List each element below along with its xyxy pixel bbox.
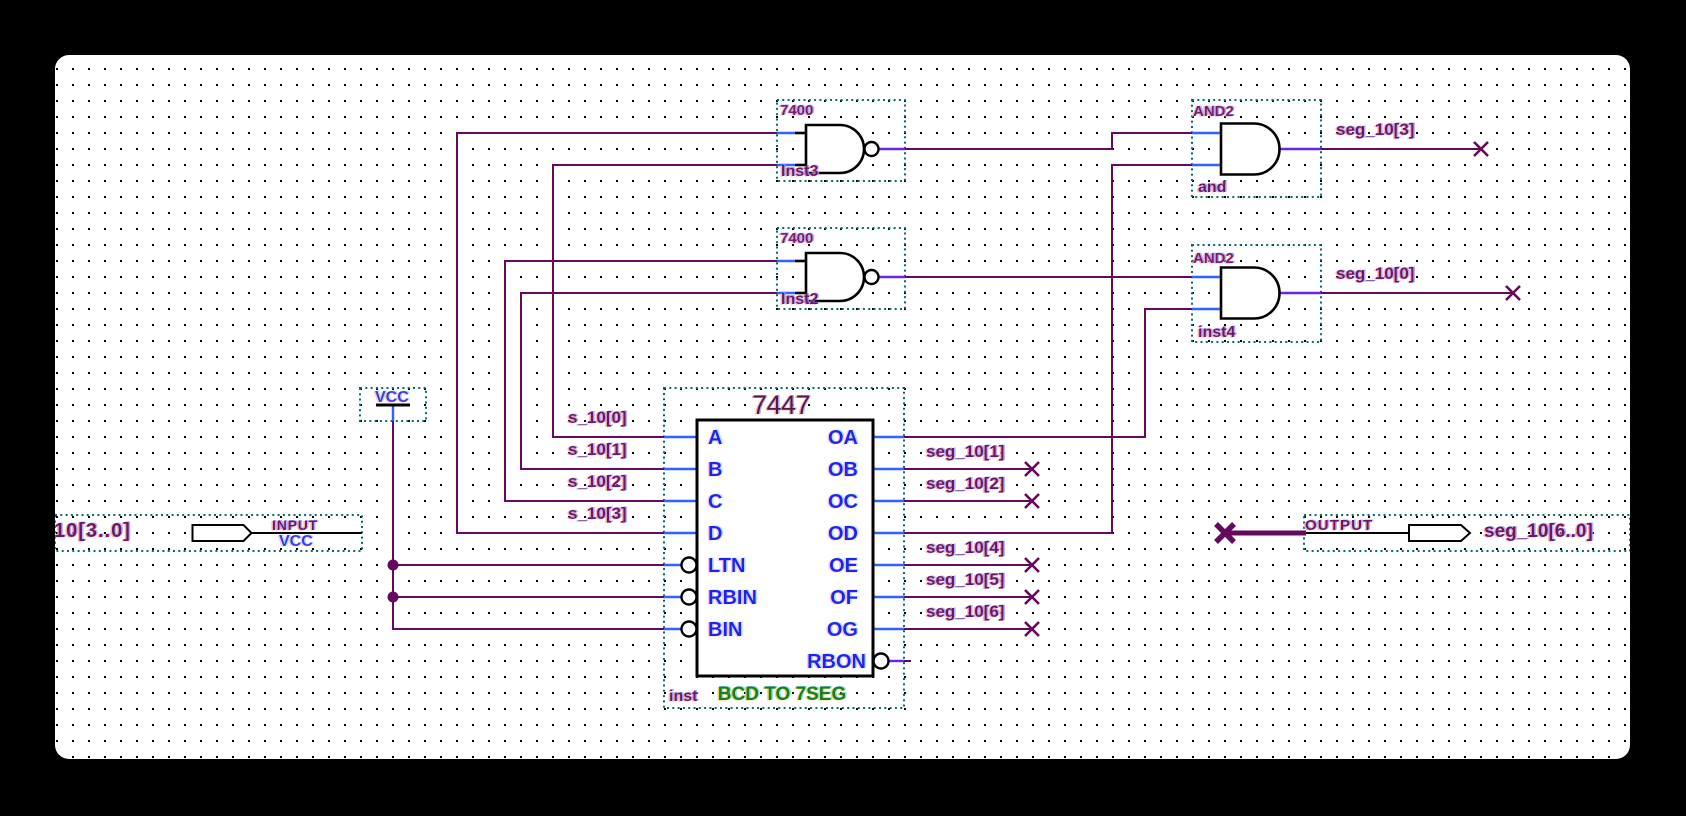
violet output stub inst2 bbox=[879, 276, 905, 278]
blue stub 7447 pin C bbox=[664, 500, 697, 502]
svg-text:seg_10[2]: seg_10[2] bbox=[926, 474, 1004, 493]
selection box 7447 inst bbox=[664, 388, 904, 708]
wire VCC to LTN bbox=[393, 564, 666, 566]
blue stub 7447 pin LTN bbox=[664, 564, 681, 566]
wire inst2 output to AND gate inst4 top input bbox=[905, 276, 1192, 278]
junction dot VCC/LTN bbox=[388, 560, 399, 571]
bubble pin RBON bbox=[874, 654, 889, 669]
selection box VCC symbol bbox=[360, 388, 426, 421]
selection box OUTPUT pin bbox=[1304, 515, 1630, 551]
blue stub inst2 input 2 bbox=[777, 292, 795, 294]
blue stub 7447 pin OE bbox=[873, 564, 904, 566]
blue stub inst3 input 2 bbox=[777, 164, 795, 166]
svg-text:VCC: VCC bbox=[375, 389, 409, 406]
selection box NAND inst2 bbox=[777, 228, 905, 309]
svg-text:OE: OE bbox=[829, 555, 858, 577]
svg-text:seg_10[5]: seg_10[5] bbox=[926, 570, 1004, 589]
AND gate inst4 (AND2) bbox=[1221, 268, 1280, 319]
NAND gate inst3 (7400) bbox=[795, 125, 879, 173]
svg-text:OG: OG bbox=[827, 619, 858, 641]
wire OE dangling bbox=[904, 564, 1032, 566]
blue stub 7447 pin OC bbox=[873, 500, 904, 502]
svg-text:seg_10[4]: seg_10[4] bbox=[926, 538, 1004, 557]
wire OD to AND gate and bottom input bbox=[904, 165, 1192, 533]
blue stub and input 2 bbox=[1192, 164, 1221, 166]
svg-text:and: and bbox=[1198, 179, 1226, 196]
violet output stub RBON bbox=[889, 660, 904, 662]
blue stub inst4 input 1 bbox=[1192, 276, 1221, 278]
selection box AND2 and bbox=[1192, 100, 1321, 197]
svg-text:Inst3: Inst3 bbox=[781, 163, 818, 180]
svg-text:A: A bbox=[708, 427, 722, 449]
svg-text:s_10[1]: s_10[1] bbox=[568, 440, 627, 459]
wire RBON stub bbox=[904, 660, 911, 662]
bubble pin RBIN bbox=[682, 590, 697, 605]
svg-text:OF: OF bbox=[830, 587, 858, 609]
svg-text:VCC: VCC bbox=[279, 533, 313, 550]
blue stub 7447 pin OD bbox=[873, 532, 904, 534]
blue stub 7447 pin RBIN bbox=[664, 596, 681, 598]
svg-text:OD: OD bbox=[828, 523, 858, 545]
X mark seg_10[3] end bbox=[1474, 142, 1488, 156]
svg-text:RBIN: RBIN bbox=[708, 587, 757, 609]
svg-text:seg_10[6..0]: seg_10[6..0] bbox=[1484, 521, 1593, 542]
blue stub VCC symbol bbox=[392, 406, 394, 421]
svg-text:seg_10[0]: seg_10[0] bbox=[1336, 264, 1414, 283]
svg-text:LTN: LTN bbox=[708, 555, 745, 577]
X mark OG end bbox=[1025, 622, 1039, 636]
blue stub and input 1 bbox=[1192, 132, 1221, 134]
wire OC dangling bbox=[904, 500, 1032, 502]
svg-text:7447: 7447 bbox=[752, 390, 810, 420]
selection box AND2 inst4 bbox=[1192, 245, 1321, 342]
wire net s_10[3] to NAND inst3 top input bbox=[457, 133, 777, 533]
wire net s_10[2] to NAND inst2 top input bbox=[505, 261, 777, 501]
wire VCC net vertical bbox=[393, 420, 666, 629]
7447 symbol body bbox=[697, 420, 873, 676]
INPUT pin connector line bbox=[251, 532, 362, 534]
wire OF dangling bbox=[904, 596, 1032, 598]
svg-text:10[3..0]: 10[3..0] bbox=[54, 520, 131, 542]
INPUT pin pennant bbox=[193, 525, 252, 541]
svg-text:BCD TO 7SEG: BCD TO 7SEG bbox=[718, 684, 846, 705]
bus wire to OUTPUT pin bbox=[1222, 531, 1306, 536]
blue stub 7447 pin OG bbox=[873, 628, 904, 630]
blue stub inst4 input 2 bbox=[1192, 308, 1221, 310]
svg-text:inst4: inst4 bbox=[1198, 324, 1235, 341]
bold X mark on output bus bbox=[1216, 524, 1234, 542]
svg-text:s_10[3]: s_10[3] bbox=[568, 504, 627, 523]
svg-text:AND2: AND2 bbox=[1193, 103, 1234, 120]
svg-text:INPUT: INPUT bbox=[272, 517, 318, 533]
violet output stub and bbox=[1279, 148, 1321, 150]
X mark OF end bbox=[1025, 590, 1039, 604]
wire OB dangling bbox=[904, 468, 1032, 470]
svg-text:OUTPUT: OUTPUT bbox=[1305, 517, 1373, 534]
X mark OB end bbox=[1025, 462, 1039, 476]
svg-text:D: D bbox=[708, 523, 722, 545]
wire net s_10[0] to NAND inst3 bottom input bbox=[553, 165, 777, 437]
svg-text:s_10[2]: s_10[2] bbox=[568, 472, 627, 491]
wire OA to AND gate inst4 bottom input bbox=[904, 309, 1192, 437]
AND gate and (AND2) bbox=[1221, 124, 1280, 175]
blue stub 7447 pin OF bbox=[873, 596, 904, 598]
wire inst4 output seg_10[0] bbox=[1321, 292, 1513, 294]
svg-text:RBON: RBON bbox=[807, 651, 866, 673]
svg-text:7400: 7400 bbox=[780, 102, 813, 119]
svg-text:inst: inst bbox=[669, 688, 698, 705]
junction dot VCC/RBIN bbox=[388, 592, 399, 603]
OUTPUT pin pennant bbox=[1409, 525, 1470, 541]
bubble pin LTN bbox=[682, 558, 697, 573]
violet output stub inst3 bbox=[879, 148, 905, 150]
svg-text:B: B bbox=[708, 459, 722, 481]
blue stub 7447 pin A bbox=[664, 436, 697, 438]
blue stub 7447 pin OB bbox=[873, 468, 904, 470]
wire inst3 output to AND gate and top input bbox=[905, 133, 1192, 149]
blue stub 7447 pin BIN bbox=[664, 628, 681, 630]
wire VCC to RBIN bbox=[393, 596, 666, 598]
svg-text:OA: OA bbox=[828, 427, 858, 449]
blue stub 7447 pin B bbox=[664, 468, 697, 470]
bubble pin BIN bbox=[682, 622, 697, 637]
svg-text:BIN: BIN bbox=[708, 619, 742, 641]
blue stub inst3 input 1 bbox=[777, 132, 795, 134]
wire net s_10[1] to NAND inst2 bottom input bbox=[521, 293, 777, 469]
svg-text:s_10[0]: s_10[0] bbox=[568, 408, 627, 427]
OUTPUT pin connector line bbox=[1306, 532, 1409, 534]
selection box INPUT pin bbox=[55, 515, 362, 551]
blue stub 7447 pin OA bbox=[873, 436, 904, 438]
svg-text:Inst2: Inst2 bbox=[781, 291, 818, 308]
X mark OE end bbox=[1025, 558, 1039, 572]
VCC power symbol bar bbox=[376, 404, 410, 407]
X mark OC end bbox=[1025, 494, 1039, 508]
violet output stub inst4 bbox=[1279, 292, 1321, 294]
svg-text:seg_10[3]: seg_10[3] bbox=[1336, 120, 1414, 139]
selection box NAND inst3 bbox=[777, 100, 905, 181]
svg-text:AND2: AND2 bbox=[1193, 250, 1234, 267]
blue stub inst2 input 1 bbox=[777, 260, 795, 262]
svg-text:OB: OB bbox=[828, 459, 858, 481]
NAND gate inst2 (7400) bbox=[795, 253, 879, 301]
wire OG dangling bbox=[904, 628, 1032, 630]
svg-text:seg_10[1]: seg_10[1] bbox=[926, 442, 1004, 461]
svg-text:7400: 7400 bbox=[780, 230, 813, 247]
svg-text:seg_10[6]: seg_10[6] bbox=[926, 602, 1004, 621]
X mark seg_10[0] end bbox=[1506, 286, 1520, 300]
blue stub 7447 pin D bbox=[664, 532, 697, 534]
wire and output seg_10[3] bbox=[1321, 148, 1481, 150]
svg-text:OC: OC bbox=[828, 491, 858, 513]
svg-text:C: C bbox=[708, 491, 722, 513]
